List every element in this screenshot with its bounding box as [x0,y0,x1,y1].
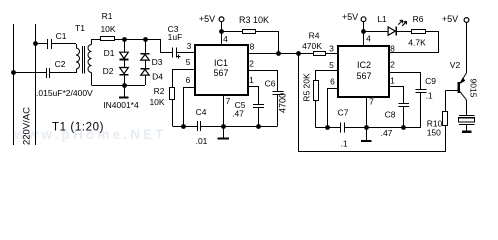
svg-text:.1: .1 [425,91,432,101]
wire top rail [92,39,101,41]
wire pin 2 IC1 to C6 [249,71,278,92]
transistor Q1 / V2 [450,60,478,115]
svg-text:.47: .47 [232,109,244,119]
buzzer B1 [459,116,475,131]
svg-text:.47: .47 [381,128,393,138]
wire pin 7 IC2 [366,97,368,127]
transformer T1 [75,23,91,85]
capacitor C2 [47,59,66,78]
node bridge top A [122,37,127,42]
wire branch B [145,39,147,53]
wire [145,75,147,85]
node rail2 pin7 [364,125,369,130]
wire branch A [124,39,126,52]
svg-text:.015uF*2/400V: .015uF*2/400V [36,88,93,98]
+5V supply 1 [199,14,224,31]
+5V supply 3 [442,14,469,73]
svg-text:C4: C4 [196,107,207,117]
node rail1 pin6 [181,124,186,129]
wire [277,94,279,126]
wire pin 4 IC1 [221,31,223,45]
wire C3 branch [146,40,173,53]
svg-text:9015: 9015 [468,79,478,98]
wire pin 2 IC2 to C9 [390,73,421,90]
wire [145,60,147,68]
svg-text:4700: 4700 [277,93,287,113]
wire [35,43,48,45]
svg-text:R2: R2 [154,86,165,96]
node bridge top B [143,37,148,42]
AC line 1 [13,24,15,145]
wire [221,31,242,33]
ground G4 [462,131,472,133]
svg-text:4.7K: 4.7K [408,38,426,48]
svg-text:7: 7 [226,96,231,106]
svg-text:R3 10K: R3 10K [239,15,269,25]
wire base V2 [445,90,457,92]
node rail2 C8 [401,125,406,130]
svg-text:C9: C9 [425,76,436,86]
svg-text:IC2: IC2 [357,60,371,70]
node R3 junction [276,51,281,56]
wire rail2 left [316,127,341,129]
wire [315,101,317,127]
svg-text:10K: 10K [149,97,164,107]
wire [363,31,388,33]
svg-text:L1: L1 [377,14,387,24]
wire [124,60,126,67]
AC line 2 [35,24,37,145]
wire pin 1 IC1 to C5 [249,87,259,105]
svg-text:5: 5 [329,60,334,70]
svg-text:567: 567 [213,68,228,78]
svg-text:C1: C1 [56,31,67,41]
LED L1 [377,14,406,35]
svg-text:IN4001*4: IN4001*4 [103,100,139,110]
svg-text:5: 5 [186,57,191,67]
node AC1 [33,41,38,46]
capacitor C7 [338,108,349,149]
wire pin 5 IC2 to R5 [316,71,339,81]
svg-text:R1: R1 [102,11,113,21]
capacitor C4 [196,107,208,146]
wire rail1 left [172,126,197,128]
capacitor C9 [416,76,437,101]
svg-text:2: 2 [390,60,395,70]
op-amp U1 / IC1 box [195,45,248,95]
svg-text:6: 6 [186,75,191,85]
wire [397,31,412,33]
resistor R5 [301,73,318,102]
diode D2 [103,66,129,76]
svg-text:.01: .01 [196,136,208,146]
resistor R4 [302,31,325,56]
op-amp U2 / IC2 box [338,46,389,97]
capacitor C1 [48,31,67,49]
node rail1 C5 [256,124,261,129]
wire bridge bottom rail [92,85,146,87]
svg-text:T1 (1:20): T1 (1:20) [52,122,104,134]
wire [14,72,47,74]
svg-text:D3: D3 [152,57,163,67]
svg-text:C7: C7 [338,108,349,118]
wire pin 8 IC1 to pin 3 IC2 [248,53,314,55]
+5V supply 2 [342,12,366,31]
node rail1 pin7 [221,124,226,129]
svg-text:+5V: +5V [342,12,358,22]
wire [326,53,338,55]
svg-text:D1: D1 [104,48,115,58]
svg-text:V2: V2 [450,60,461,70]
node bridge bottom [122,83,127,88]
svg-text:T1: T1 [75,23,85,33]
wire pin 5 IC1 to R2 [173,70,196,88]
diode D3 [141,53,163,67]
svg-text:+5V: +5V [199,14,215,24]
ground G1 [119,85,129,99]
wire [258,107,260,126]
wire [403,106,405,127]
wire [114,39,145,41]
wire R10 bottom to node [299,54,446,152]
node +5V 2 [361,29,366,34]
svg-text:C8: C8 [385,110,396,120]
svg-text:R6: R6 [413,14,424,24]
svg-text:470K: 470K [302,41,322,51]
wire pin 6 IC1 [184,88,196,127]
wire pin 1 IC2 to C8 [390,87,404,104]
wire R6 to pin 8 IC2 [390,32,439,53]
svg-text:1: 1 [249,75,254,85]
node R10 junction [296,51,301,56]
wire pin 7 IC1 [223,95,225,126]
svg-text:D4: D4 [152,72,163,82]
svg-text:150: 150 [427,128,441,138]
svg-text:3: 3 [187,41,192,51]
node AC2 [11,70,16,75]
node +5V 1 [219,29,224,34]
wire [176,52,194,54]
node rail2 pin6 [325,125,330,130]
svg-text:R4: R4 [309,31,320,41]
wire pin 4 IC2 [363,31,365,46]
wire rail1 right [201,126,278,128]
wire [51,43,76,45]
svg-text:.1: .1 [340,139,347,149]
svg-text:D2: D2 [103,66,114,76]
capacitor C8 [381,104,410,139]
svg-text:10K: 10K [100,24,115,34]
wire [256,32,279,54]
svg-text:567: 567 [356,71,371,81]
wire pin 6 IC2 [328,89,339,128]
svg-text:C2: C2 [55,59,66,69]
capacitor C3 [168,24,183,58]
ground G3 [361,127,372,142]
ground G2 [218,126,229,140]
svg-text:2: 2 [249,59,254,69]
resistor R1 [100,11,115,41]
diode D4 [141,68,164,82]
wire [124,76,126,85]
wire [420,93,422,128]
svg-text:6: 6 [330,77,335,87]
wire [445,91,447,112]
diode D1 [104,48,129,60]
svg-text:1: 1 [390,76,395,86]
svg-text:1uF: 1uF [168,32,183,42]
capacitor C6 [265,79,288,114]
svg-text:4: 4 [223,34,228,44]
svg-text:8: 8 [250,42,255,52]
svg-text:R5 20K: R5 20K [301,73,311,102]
resistor R6 [408,14,426,48]
svg-text:3: 3 [329,44,334,54]
svg-text:220V/AC: 220V/AC [22,107,33,145]
resistor R3 [239,15,269,34]
wire [50,72,76,74]
resistor R2 [149,86,174,107]
wire [172,100,174,126]
svg-text:+5V: +5V [442,14,458,24]
svg-text:7: 7 [369,97,374,107]
svg-text:IC1: IC1 [214,58,228,68]
resistor R10 [427,112,448,138]
svg-text:4: 4 [366,34,371,44]
svg-text:C6: C6 [265,79,276,89]
wire rail2 right [344,127,421,129]
capacitor C5 [232,100,264,119]
